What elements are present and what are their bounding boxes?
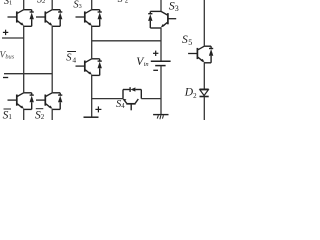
svg-text:S2: S2 bbox=[37, 0, 45, 6]
svg-text:S1: S1 bbox=[4, 0, 12, 7]
